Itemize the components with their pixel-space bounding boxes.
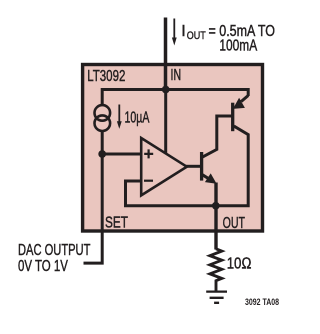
node OUT junction [212, 202, 220, 210]
node IN junction [162, 86, 170, 94]
transistor PNP [231, 103, 234, 132]
svg-text:IN: IN [171, 67, 182, 84]
svg-text:DAC OUTPUT: DAC OUTPUT [18, 242, 91, 259]
transistor NPN [200, 152, 203, 181]
svg-text:0V TO 1V: 0V TO 1V [18, 258, 68, 275]
arrow current direction IOUT [173, 19, 175, 40]
IC box LT3092 [83, 65, 263, 232]
svg-text:10µA: 10µA [125, 110, 150, 127]
wire input to IN pin [164, 18, 168, 90]
wire NPN emitter to OUT node [214, 183, 217, 250]
svg-text:OUT: OUT [223, 215, 246, 232]
wire top rail inside box [102, 90, 248, 107]
wire current source to SET pin [84, 131, 103, 263]
wire op-amp supply [164, 90, 167, 154]
arrow current source direction [118, 105, 120, 123]
wire junction to op-amp plus input [102, 153, 141, 156]
op-amp [141, 138, 187, 195]
ground [206, 292, 227, 303]
resistor 10ohm [210, 249, 222, 291]
svg-text:I: I [181, 23, 185, 40]
svg-text:10Ω: 10Ω [227, 256, 252, 273]
svg-text:100mA: 100mA [219, 38, 257, 55]
svg-text:3092 TA08: 3092 TA08 [245, 297, 279, 308]
wire op-amp output to NPN base [185, 165, 201, 168]
wire feedback from op-amp minus to OUT node and PNP collector [126, 126, 249, 206]
node SET junction [98, 150, 106, 158]
svg-text:LT3092: LT3092 [87, 68, 125, 85]
current source 10uA [95, 105, 111, 121]
svg-text:OUT: OUT [187, 30, 206, 42]
svg-text:SET: SET [105, 215, 128, 232]
